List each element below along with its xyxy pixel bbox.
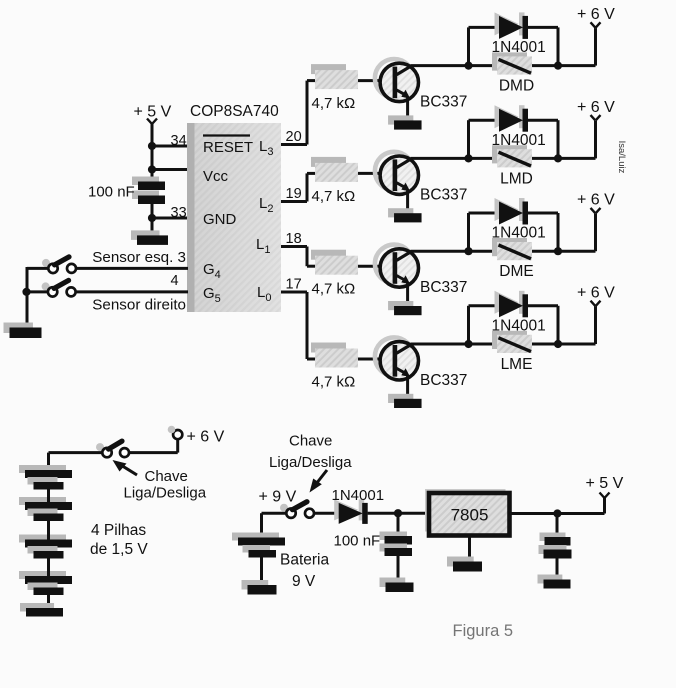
- svg-text:DMD: DMD: [499, 78, 534, 95]
- wire motor to +6V terminal DMD: [558, 28, 596, 66]
- svg-text:4,7 kΩ: 4,7 kΩ: [312, 95, 356, 112]
- wire motor loop top LME: [469, 304, 559, 307]
- wire node to capacitor C2: [397, 513, 400, 537]
- label D2 type 1N4001: [492, 132, 546, 149]
- svg-text:7805: 7805: [451, 506, 489, 525]
- label Sensor direito: [92, 297, 186, 314]
- wire switch to diode D5: [314, 512, 339, 515]
- svg-text:100 nF: 100 nF: [334, 533, 381, 550]
- ground (B1 negative): [242, 580, 277, 595]
- battery cell 4 of 4 (1,5 V): [19, 571, 72, 595]
- pin label L2: [259, 195, 273, 215]
- wire battery to switch (9V): [262, 513, 287, 538]
- svg-text:Isa/Luiz: Isa/Luiz: [616, 141, 627, 174]
- wire motor loop bottom DMD: [469, 64, 559, 67]
- svg-text:+ 6 V: + 6 V: [577, 99, 615, 116]
- svg-text:4 Pilhas: 4 Pilhas: [91, 522, 146, 539]
- transistor Q4 BC337: [375, 337, 419, 380]
- label C1 value 100 nF: [88, 184, 135, 201]
- node motor left DMD: [464, 62, 472, 70]
- wire Q4 emitter to ground: [406, 375, 409, 399]
- diode D5 1N4001 (series): [334, 499, 368, 524]
- ground (U2): [447, 557, 482, 572]
- svg-text:de 1,5 V: de 1,5 V: [90, 541, 148, 558]
- svg-text:+ 5 V: + 5 V: [586, 475, 624, 492]
- wire G5 pin to sensor switch: [76, 290, 188, 293]
- ground (Q2 emitter): [388, 208, 422, 222]
- label Q4 type BC337: [420, 372, 467, 389]
- pin label Vcc: [203, 168, 229, 185]
- node motor left LME: [464, 340, 472, 348]
- svg-text:+ 6 V: + 6 V: [187, 429, 225, 446]
- pin label RESET (active low): [203, 136, 253, 157]
- resistor R2 4,7 k: [311, 157, 358, 182]
- svg-text:Figura 5: Figura 5: [453, 622, 514, 640]
- node rail-Vcc junction: [148, 165, 156, 173]
- label terminal +9 V: [259, 489, 297, 506]
- wire motor loop bottom LMD: [469, 157, 559, 160]
- node motor right DME: [554, 247, 562, 255]
- wire C2 to ground: [397, 556, 400, 583]
- wire motor loop left DMD: [467, 27, 470, 65]
- power terminal +5 V (output): [586, 475, 624, 498]
- wire motor loop right DME: [557, 213, 560, 251]
- arrow to switch (pack): [113, 460, 138, 475]
- node output cap junction: [553, 509, 561, 517]
- svg-text:4,7 kΩ: 4,7 kΩ: [312, 281, 356, 298]
- wire switch to left rail (G4 row): [27, 267, 48, 270]
- wire RESET to rail: [152, 145, 188, 148]
- switch sensor esquerdo: [42, 257, 76, 273]
- regulator U2 7805: [425, 489, 510, 536]
- label Q1 type BC337: [420, 94, 467, 111]
- label D5 type 1N4001: [332, 487, 385, 504]
- diode D1 1N4001: [495, 12, 529, 39]
- wire switch to battery top: [49, 453, 103, 471]
- node motor right LMD: [554, 154, 562, 162]
- svg-text:DME: DME: [499, 263, 533, 280]
- label 4 Pilhas: [91, 522, 146, 539]
- label 9 V: [292, 573, 316, 590]
- label Q2 type BC337: [420, 186, 467, 203]
- label Chave (pack): [145, 468, 188, 485]
- battery B1 9V: [232, 533, 285, 558]
- node input cap junction: [394, 509, 402, 517]
- transistor Q3 BC337: [375, 245, 419, 288]
- svg-text:33: 33: [171, 205, 187, 221]
- wire motor loop left DME: [467, 213, 470, 251]
- resistor R3 4,7 k: [311, 250, 358, 275]
- pin label L0: [257, 284, 271, 304]
- wire Vcc to rail: [152, 168, 188, 171]
- wire motor to +6V terminal LMD: [558, 121, 596, 158]
- wire motor loop right LMD: [557, 120, 560, 158]
- capacitor C2 100 nF: [380, 532, 413, 557]
- label de 1,5 V: [90, 541, 148, 558]
- wire motor to +6V terminal DME: [558, 214, 596, 252]
- svg-text:Chave: Chave: [145, 468, 188, 485]
- wire node to capacitor C3: [556, 514, 559, 539]
- wire Q2 collector to motor node: [411, 157, 469, 160]
- svg-text:+ 6 V: + 6 V: [577, 192, 615, 209]
- wire G4 pin to sensor switch: [76, 267, 188, 270]
- transistor Q2 BC337: [375, 152, 419, 195]
- wire B1 to ground: [260, 558, 263, 586]
- label Sensor esq. 3: [92, 249, 186, 266]
- pin number 19: [286, 186, 302, 202]
- pin number 33: [171, 205, 187, 221]
- wire R4 to Q4 base: [358, 358, 393, 361]
- label Figura 5: [453, 622, 514, 640]
- svg-text:BC337: BC337: [420, 372, 467, 389]
- label IC type COP8SA740: [190, 103, 279, 120]
- label motor LMD: [500, 170, 533, 187]
- wire motor loop right DMD: [557, 27, 560, 65]
- svg-text:Liga/Desliga: Liga/Desliga: [269, 454, 352, 471]
- wire R2 to Q2 base: [358, 172, 393, 175]
- ground (sensor common): [4, 323, 42, 339]
- svg-text:20: 20: [286, 129, 302, 145]
- wire +6V terminal to switch: [129, 439, 178, 452]
- wire Q2 emitter to ground: [406, 189, 409, 213]
- svg-text:BC337: BC337: [420, 186, 467, 203]
- label D4 type 1N4001: [492, 318, 546, 335]
- pin label GND: [203, 211, 237, 228]
- svg-text:Sensor direito: Sensor direito: [92, 297, 186, 314]
- svg-text:19: 19: [286, 186, 302, 202]
- pin label L1: [256, 236, 270, 256]
- svg-text:100 nF: 100 nF: [88, 184, 135, 201]
- svg-text:4: 4: [171, 273, 179, 289]
- switch chave liga/desliga (9V): [280, 502, 314, 518]
- motor LMD: [492, 145, 532, 167]
- node motor left DME: [464, 247, 472, 255]
- wire Q1 collector to motor node: [411, 64, 469, 67]
- wire switch to left rail (G5 row): [27, 290, 48, 293]
- wire Q4 collector to motor node: [411, 343, 469, 346]
- IC U1 COP8SA740 body: [187, 123, 281, 312]
- svg-text:1N4001: 1N4001: [332, 487, 385, 504]
- wire motor loop top DME: [469, 212, 559, 215]
- wire sensors common down to ground: [26, 267, 29, 328]
- svg-text:+ 5 V: + 5 V: [134, 104, 172, 121]
- wire GND to rail: [152, 217, 188, 220]
- power terminal +6 V (row 3): [577, 192, 615, 214]
- svg-text:+ 9 V: + 9 V: [259, 489, 297, 506]
- node motor right LME: [554, 340, 562, 348]
- capacitor C1 100 nF: [132, 177, 165, 205]
- diode D3 1N4001: [495, 198, 529, 225]
- label Bateria: [280, 552, 329, 569]
- ground (Q1 emitter): [388, 115, 422, 129]
- node motor left LMD: [464, 154, 472, 162]
- wire battery cells interconnect: [47, 490, 50, 610]
- power terminal +5 V: [134, 104, 172, 125]
- svg-text:BC337: BC337: [420, 94, 467, 111]
- svg-text:Vcc: Vcc: [203, 168, 229, 185]
- label motor LME: [501, 356, 533, 373]
- wire motor loop bottom LME: [469, 343, 559, 346]
- wire motor loop bottom DME: [469, 250, 559, 253]
- wire motor loop left LMD: [467, 120, 470, 158]
- ground (Q3 emitter): [388, 301, 422, 315]
- resistor R4 4,7 k: [311, 343, 358, 368]
- switch chave liga/desliga (pack): [96, 441, 129, 457]
- wire motor to +6V terminal LME: [558, 307, 596, 345]
- ground (C2): [380, 578, 414, 593]
- svg-text:Bateria: Bateria: [280, 552, 329, 569]
- svg-text:BC337: BC337: [420, 279, 467, 296]
- motor DMD: [492, 52, 532, 74]
- wire U2 ground pin: [468, 536, 471, 563]
- svg-text:Chave: Chave: [289, 433, 332, 450]
- diode D4 1N4001: [495, 291, 529, 318]
- svg-text:+ 6 V: + 6 V: [577, 6, 615, 23]
- pin number 4: [171, 273, 179, 289]
- label motor DME: [499, 263, 533, 280]
- wire C3 to ground: [556, 559, 559, 581]
- svg-text:LMD: LMD: [500, 170, 533, 187]
- wire Q3 emitter to ground: [406, 282, 409, 306]
- label C2 value 100 nF: [334, 533, 381, 550]
- node sensor common junction: [22, 288, 30, 296]
- wire motor loop top LMD: [469, 119, 559, 122]
- svg-text:4,7 kΩ: 4,7 kΩ: [312, 374, 356, 391]
- label R2 value 4,7 k-ohm: [312, 188, 356, 205]
- capacitor C3 (output): [539, 533, 572, 559]
- resistor R1 4,7 k: [311, 64, 358, 89]
- pin number 18: [286, 231, 302, 247]
- label Q3 type BC337: [420, 279, 467, 296]
- pin label L3: [259, 138, 273, 158]
- wire L pin 20 route to R1: [281, 81, 316, 145]
- pin label G4: [203, 261, 221, 281]
- wire motor loop top DMD: [469, 26, 559, 29]
- svg-text:RESET: RESET: [203, 139, 253, 156]
- power terminal +6 V (row 2): [577, 99, 615, 121]
- wire R3 to Q3 base: [358, 265, 393, 268]
- wire U2 output to +5V: [510, 498, 605, 514]
- pin label G5: [203, 285, 221, 305]
- wire Q1 emitter to ground: [406, 97, 409, 121]
- label authors Isa/Luiz (rotated): [616, 141, 627, 174]
- svg-text:9 V: 9 V: [292, 573, 316, 590]
- label Liga/Desliga (9V): [269, 454, 352, 471]
- pin number 17: [286, 277, 302, 293]
- wire diode to regulator input: [368, 512, 430, 515]
- battery cell 3 of 4 (1,5 V): [19, 535, 72, 559]
- node motor right DMD: [554, 62, 562, 70]
- wire L pin 18 route to R3: [281, 247, 316, 267]
- svg-text:+ 6 V: + 6 V: [577, 285, 615, 302]
- wire motor loop right LME: [557, 306, 560, 344]
- diode D2 1N4001: [495, 105, 529, 132]
- label R3 value 4,7 k-ohm: [312, 281, 356, 298]
- svg-text:COP8SA740: COP8SA740: [190, 103, 279, 120]
- svg-text:4,7 kΩ: 4,7 kΩ: [312, 188, 356, 205]
- power terminal +6 V (row 1): [577, 6, 615, 28]
- pin number 20: [286, 129, 302, 145]
- arrow to switch (9V): [310, 470, 328, 493]
- wire +5V vertical rail: [151, 124, 154, 236]
- ground (battery pack negative): [20, 603, 63, 617]
- svg-text:Sensor esq. 3: Sensor esq. 3: [92, 249, 186, 266]
- ground (below C1/GND): [131, 230, 168, 245]
- pin number 34: [171, 133, 187, 149]
- switch sensor direito: [42, 280, 76, 296]
- svg-text:GND: GND: [203, 211, 237, 228]
- ground (C3): [538, 575, 571, 589]
- motor DME: [492, 238, 532, 260]
- wire L pin 17 route to R4: [281, 292, 316, 359]
- svg-text:18: 18: [286, 231, 302, 247]
- motor LME: [492, 331, 532, 353]
- node rail-GND junction: [148, 214, 156, 222]
- label motor DMD: [499, 78, 534, 95]
- label U2 type 7805: [451, 506, 489, 525]
- wire R1 to Q1 base: [358, 79, 393, 82]
- transistor Q1 BC337: [375, 59, 419, 102]
- svg-text:17: 17: [286, 277, 302, 293]
- label R1 value 4,7 k-ohm: [312, 95, 356, 112]
- label D1 type 1N4001: [492, 39, 546, 56]
- wire L pin 19 route to R2: [281, 173, 316, 201]
- ground (Q4 emitter): [388, 394, 422, 408]
- battery cell 2 of 4 (1,5 V): [19, 497, 72, 521]
- label Liga/Desliga (pack): [124, 485, 207, 502]
- power terminal +6 V (battery pack): [168, 426, 225, 446]
- svg-text:LME: LME: [501, 356, 533, 373]
- wire motor loop left LME: [467, 306, 470, 344]
- svg-text:Liga/Desliga: Liga/Desliga: [124, 485, 207, 502]
- wire Q3 collector to motor node: [411, 250, 469, 253]
- battery cell 1 of 4 (1,5 V): [19, 465, 72, 490]
- label D3 type 1N4001: [492, 225, 546, 242]
- label Chave (9V): [289, 433, 332, 450]
- svg-text:34: 34: [171, 133, 187, 149]
- power terminal +6 V (row 4): [577, 285, 615, 307]
- node rail-RESET junction: [148, 142, 156, 150]
- label R4 value 4,7 k-ohm: [312, 374, 356, 391]
